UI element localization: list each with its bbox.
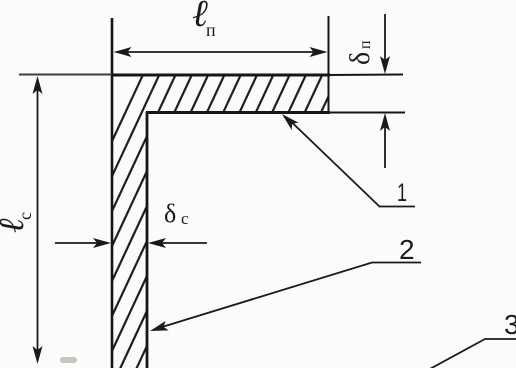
svg-text:п: п (357, 40, 374, 49)
svg-text:δ: δ (164, 199, 176, 228)
svg-text:c: c (15, 212, 35, 220)
svg-text:δ: δ (345, 52, 376, 65)
svg-text:c: c (181, 209, 189, 228)
svg-text:2: 2 (399, 234, 415, 265)
svg-text:1: 1 (397, 178, 407, 207)
svg-text:3: 3 (504, 309, 516, 340)
svg-text:п: п (206, 20, 216, 40)
